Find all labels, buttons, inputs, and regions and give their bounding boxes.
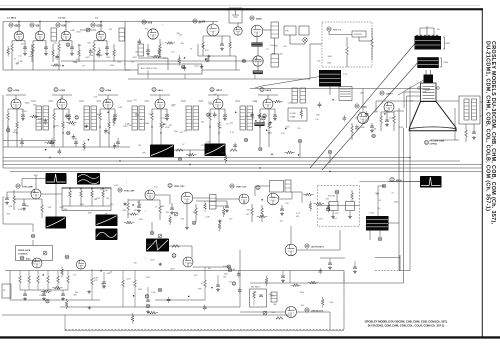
svg-text:820: 820 (67, 22, 70, 24)
potentiometer hold (158, 234, 162, 238)
ground G24 (223, 117, 227, 120)
wire (32, 54, 34, 56)
wire (336, 194, 338, 202)
svg-text:150: 150 (179, 35, 182, 37)
capacitor Ct80 (167, 299, 171, 301)
junction node (62, 65, 64, 67)
wire (208, 94, 228, 96)
junction node (45, 149, 47, 151)
capacitor C35 (370, 126, 374, 128)
tube 6AU8 (263, 99, 273, 109)
capacitor C21 (67, 115, 71, 117)
bus wire rail mid2 (250, 282, 344, 284)
wire (209, 127, 211, 147)
resistor Rt61 (131, 213, 137, 216)
tube label (244, 138, 248, 142)
tube ant in (234, 27, 242, 35)
tube label Vagc (20, 256, 24, 260)
resistor R45 (465, 130, 468, 137)
resistor R51 (41, 205, 44, 212)
deflection yoke horizontal coils (black) (415, 36, 442, 50)
wire (290, 306, 292, 309)
transformer coil T24b (247, 106, 253, 130)
resistor Rt74 (131, 316, 134, 322)
wire (8, 108, 23, 110)
picture tube faceplate (409, 127, 456, 129)
tube V damper (286, 307, 297, 318)
svg-text:270: 270 (73, 274, 76, 276)
svg-text:DU-21CDM1, CDM, CHM, COB, COL,: DU-21CDM1, CDM, CHM, COB, COL, COLB, COM… (368, 323, 445, 327)
capacitor Ct14 (89, 51, 93, 53)
box disc (339, 87, 352, 101)
resistor Rd (276, 317, 283, 320)
wire (33, 40, 46, 42)
transformer coil (51, 28, 57, 41)
svg-text:2.2M: 2.2M (161, 118, 166, 120)
wire (41, 193, 62, 195)
capacitor C12 (70, 47, 74, 49)
svg-text:120K: 120K (127, 125, 132, 127)
ground Gt44 (258, 114, 262, 117)
tube V4 mixer (148, 29, 158, 39)
wire (430, 139, 459, 141)
svg-text:.001: .001 (333, 218, 337, 220)
deflection yoke vertical coils (black) (417, 57, 439, 68)
capacitor Ct106 (233, 145, 237, 147)
wire row1 bottom rail (3, 69, 130, 71)
resistor R41 (393, 116, 396, 123)
ground Gt9 (200, 65, 204, 68)
svg-text:SYNC AMP: SYNC AMP (22, 186, 34, 189)
tube label t108 (259, 147, 263, 151)
wire sound if rail (250, 88, 430, 90)
bus wire rail mid1 (5, 270, 344, 272)
svg-text:1200: 1200 (138, 289, 142, 291)
resistor R97b (134, 280, 137, 287)
resistor Rt96 (321, 299, 324, 305)
wire (289, 271, 291, 284)
ground G12 (70, 52, 74, 55)
box T afc (270, 181, 284, 193)
yoke bracket right 2 (440, 57, 442, 59)
wire crt lead 2 (407, 95, 421, 97)
transformer coil (119, 28, 125, 41)
svg-text:2.2M: 2.2M (96, 198, 101, 200)
wire (9, 271, 11, 301)
wire (274, 38, 276, 54)
wire (125, 69, 138, 71)
ground G72b (185, 226, 189, 229)
wire (309, 44, 311, 79)
wire (155, 299, 205, 301)
svg-text:47: 47 (277, 198, 279, 200)
svg-text:6AU8: 6AU8 (256, 18, 262, 21)
capacitor Ct40 (318, 104, 322, 106)
svg-text:.001: .001 (300, 305, 304, 307)
resistor Rt13 (178, 58, 181, 64)
wire (297, 249, 340, 251)
bottom dashed border vertical (343, 272, 345, 329)
wire (98, 94, 118, 96)
resistor R24b (218, 122, 221, 128)
wire (128, 199, 160, 201)
resistor Rt62 (126, 221, 132, 224)
svg-text:12BY7: 12BY7 (386, 94, 393, 96)
junction node (211, 287, 213, 289)
wire (237, 23, 239, 27)
ground Gt36 (85, 125, 89, 128)
ground G80 (280, 212, 284, 215)
capacitor Ct50 (343, 118, 347, 120)
tube label Vaa (65, 255, 69, 259)
capacitor C40 (385, 120, 389, 122)
wire (62, 188, 111, 190)
resistor R95 (67, 276, 70, 283)
picture tube socket (black) (424, 75, 434, 84)
svg-text:YOKE: YOKE (443, 62, 449, 64)
tube label 6J6 (30, 23, 34, 27)
wire (259, 127, 261, 147)
svg-text:150: 150 (376, 194, 379, 196)
wire (99, 127, 101, 147)
wire diagonal to IF transformer (262, 77, 320, 87)
wire (279, 198, 292, 200)
svg-text:.047: .047 (229, 219, 233, 221)
ground G10 (23, 52, 27, 55)
component value labels texture (7, 22, 431, 314)
ground G35 (370, 129, 374, 132)
svg-text:2.2M: 2.2M (105, 102, 110, 104)
wire (320, 257, 345, 259)
resistor R21b (62, 122, 65, 128)
ground G72 (225, 209, 229, 212)
wire (6, 94, 26, 96)
capacitor Ct53 (355, 127, 359, 129)
tube label t33 (75, 116, 79, 120)
long vertical yoke feed 2 (403, 128, 405, 283)
resistor Rt43 (300, 111, 303, 117)
svg-text:6AL5: 6AL5 (158, 89, 164, 92)
svg-text:470K: 470K (70, 30, 75, 32)
svg-text:.0047: .0047 (170, 269, 175, 271)
svg-text:750: 750 (377, 208, 380, 210)
svg-text:.022: .022 (148, 113, 152, 115)
svg-text:470K: 470K (165, 127, 170, 129)
svg-text:5600: 5600 (328, 56, 332, 58)
resistor R22 (99, 113, 102, 120)
svg-text:.01: .01 (266, 48, 269, 50)
tube V vid out (384, 102, 394, 112)
svg-text:330K: 330K (171, 105, 176, 107)
wire top rail row1 (3, 21, 218, 23)
svg-text:150: 150 (18, 56, 21, 58)
resistor R23 (151, 113, 154, 120)
tube label Vvo (380, 91, 384, 95)
svg-text:DU-21CDM1, CDM, CHM, COB, COL,: DU-21CDM1, CDM, CHM, COB, COL, COLB, COM… (484, 41, 490, 211)
svg-text:PICTURE TUBE: PICTURE TUBE (430, 141, 445, 143)
svg-text:.01: .01 (38, 121, 41, 123)
wire (138, 57, 168, 59)
resistor Rt91 (44, 290, 50, 293)
svg-text:.0047: .0047 (132, 57, 137, 59)
svg-text:CROSLEY MODELS DU-30CDM, CHB,: CROSLEY MODELS DU-30CDM, CHB, CHM, COB, … (365, 320, 448, 324)
svg-text:470K: 470K (399, 127, 404, 129)
svg-text:1200: 1200 (106, 57, 110, 59)
svg-text:5600: 5600 (76, 31, 80, 33)
svg-text:470K: 470K (25, 205, 30, 207)
coil core hatch T9 (253, 71, 263, 75)
wire (181, 100, 186, 102)
capacitor C92 (61, 294, 65, 296)
svg-text:750: 750 (269, 133, 272, 135)
transformer coil T20b (43, 106, 49, 130)
box peaker (288, 108, 307, 121)
resistor R20 (159, 44, 162, 51)
capacitor Ct20 (55, 57, 59, 59)
wire (100, 108, 115, 110)
wire (169, 195, 171, 204)
ground G20 (146, 52, 150, 55)
svg-text:.022: .022 (76, 59, 80, 61)
junction node (100, 270, 102, 272)
tube label V4 (142, 20, 146, 24)
svg-text:CONTROL: CONTROL (18, 254, 29, 256)
yoke top leads (419, 28, 421, 36)
svg-text:.1: .1 (144, 211, 146, 213)
svg-text:.0047: .0047 (150, 260, 155, 262)
svg-text:2.2M: 2.2M (18, 61, 23, 63)
long vertical yoke feed 1 (398, 108, 400, 271)
capacitor Ct95 (319, 271, 323, 273)
capacitor C13 (105, 47, 109, 49)
junction node (88, 139, 90, 141)
tube 6J6 (35, 31, 45, 41)
svg-text:4.5MC: 4.5MC (290, 113, 296, 115)
tube label 6CB6 (91, 23, 95, 27)
waveform inset W h1 (420, 176, 442, 188)
box fra (329, 202, 338, 211)
capacitor C20 (146, 50, 150, 52)
svg-text:.01: .01 (158, 52, 161, 54)
waveform inset W a1 (96, 215, 118, 227)
wire (35, 176, 37, 189)
wire crt left lead (404, 91, 421, 93)
wire (203, 35, 230, 37)
svg-text:750: 750 (145, 28, 148, 30)
svg-text:120K: 120K (110, 65, 115, 67)
wire noise box feed (310, 43, 322, 45)
svg-text:1B3 HV RECT: 1B3 HV RECT (311, 247, 325, 249)
resistor R91 (28, 276, 31, 283)
svg-text:V-2 6J6: V-2 6J6 (58, 18, 66, 20)
pilot lamp (303, 38, 307, 42)
resistor R70 (127, 203, 130, 210)
svg-text:.0047: .0047 (85, 57, 90, 59)
page right border line (481, 9, 483, 338)
resistor Rt84 (65, 301, 68, 307)
box focus (318, 186, 360, 227)
tube V afc (267, 193, 279, 205)
wire (2, 314, 290, 316)
svg-text:.1: .1 (162, 24, 164, 26)
tube label 6CB6 (100, 87, 104, 91)
resistor Rt34 (113, 118, 116, 124)
box jack (2, 284, 11, 298)
ground Gt92 (87, 290, 91, 293)
wire (11, 54, 13, 56)
resistor R85 (351, 193, 354, 199)
junction node (163, 123, 165, 125)
svg-text:270: 270 (229, 282, 232, 284)
ground Gt45 (269, 121, 273, 124)
wire (174, 149, 205, 151)
tube label Vso (118, 188, 122, 192)
transformer coil T20 (36, 106, 42, 130)
tube V ph (183, 257, 193, 267)
capacitor Cm (116, 142, 120, 144)
wire (329, 154, 331, 163)
svg-text:820: 820 (7, 213, 10, 215)
resistor R23b (160, 122, 163, 128)
svg-text:.0047: .0047 (389, 117, 394, 119)
transformer coil T aud (464, 99, 469, 120)
resistor R50 (13, 196, 16, 203)
wire (151, 222, 153, 231)
capacitor Ct1 (183, 67, 187, 69)
svg-text:750: 750 (171, 51, 174, 53)
wire (53, 127, 55, 147)
resistor R92 (37, 276, 40, 283)
resistor Rt110 (224, 156, 227, 162)
svg-text:100K: 100K (97, 114, 102, 116)
tube label (150, 231, 154, 235)
wire (260, 108, 275, 110)
tube label t41 (262, 117, 266, 121)
transformer coil T aud2 (472, 99, 477, 120)
box jack B (299, 26, 309, 35)
capacitor C99 (281, 276, 285, 278)
wire (58, 54, 60, 56)
tube label t77 (145, 295, 149, 299)
tube label t10 (181, 65, 185, 69)
svg-text:.01: .01 (201, 283, 204, 285)
wire (318, 205, 360, 207)
junction node (285, 128, 287, 130)
ground Gt85 (88, 306, 92, 309)
wire (360, 181, 421, 183)
junction node (132, 204, 134, 206)
svg-text:AGC LINE 4.5 MC: AGC LINE 4.5 MC (141, 67, 158, 70)
ground G13 (105, 52, 109, 55)
speaker wires (480, 101, 482, 103)
tube label Vho (390, 177, 394, 181)
capacitor C71 (170, 208, 174, 210)
transformer coil L3 (138, 44, 144, 56)
wire (32, 240, 34, 246)
ground G21 (67, 117, 71, 120)
tube label (228, 268, 232, 272)
tube label Vph (172, 254, 176, 258)
potentiometer bright (263, 311, 267, 315)
junction node (107, 112, 109, 114)
svg-text:120K: 120K (174, 131, 179, 133)
capacitor C72 (225, 206, 229, 208)
transformer coil T23 (186, 106, 192, 130)
potentiometer height (174, 212, 178, 216)
tube label 6U8 (56, 23, 60, 27)
resistor R12 (58, 44, 61, 51)
svg-text:.0047: .0047 (373, 112, 378, 114)
capacitor Ct83 (237, 274, 241, 276)
resistor Rt90 (61, 269, 64, 275)
wire (193, 266, 230, 268)
ground G99 (281, 279, 285, 282)
resistor Rt78 (150, 311, 156, 314)
capacitor Ct32 (213, 114, 217, 116)
tube V7 (253, 56, 263, 66)
resistor Rt60 (222, 209, 225, 215)
ground G71 (170, 211, 174, 214)
junction node (255, 120, 256, 122)
resistor Rt68 (306, 193, 312, 196)
resistor (371, 38, 374, 47)
resistor R93 (47, 276, 50, 283)
svg-text:270: 270 (53, 43, 56, 45)
wire (147, 70, 149, 79)
junction node (42, 274, 44, 276)
tube 6CB6 (57, 99, 67, 109)
svg-text:750: 750 (138, 145, 141, 147)
tube 6BC5 (14, 31, 24, 41)
wire (362, 89, 364, 96)
junction node (184, 57, 186, 59)
svg-text:.1: .1 (125, 182, 127, 184)
wire (344, 282, 404, 284)
capacitor Clv (259, 295, 263, 297)
tube label (158, 288, 162, 292)
transformer coil T11 (271, 54, 279, 67)
svg-text:VERT OSC: VERT OSC (174, 186, 185, 188)
svg-text:47: 47 (256, 123, 258, 125)
resistor Rlv (253, 292, 256, 298)
wire (93, 54, 95, 56)
resistor Rt2 (153, 55, 159, 58)
svg-text:270: 270 (201, 145, 204, 147)
wire (79, 100, 84, 102)
svg-text:SYNC SEP: SYNC SEP (124, 191, 135, 193)
capacitor Ct23 (250, 115, 254, 117)
resistor R21 (53, 113, 56, 120)
tube V5 1st if (207, 24, 219, 36)
junction node (271, 153, 273, 155)
tube label (31, 234, 35, 238)
capacitor C100 (328, 263, 332, 265)
potentiometer P1 (43, 251, 47, 255)
box noise gate ctl (16, 246, 53, 261)
wire (80, 29, 96, 31)
svg-text:47: 47 (32, 52, 34, 54)
svg-text:.047: .047 (147, 56, 151, 58)
resistor R72 (195, 208, 198, 215)
wire mixer bottom rail (128, 78, 310, 80)
svg-text:150: 150 (359, 112, 362, 114)
transformer coil T23b (193, 106, 199, 130)
box divider (62, 188, 111, 211)
transformer coil T afc coil (285, 180, 291, 192)
ground G51 (22, 207, 26, 210)
transformer coil T10 (271, 22, 279, 38)
waveform inset W a2 (96, 229, 118, 241)
